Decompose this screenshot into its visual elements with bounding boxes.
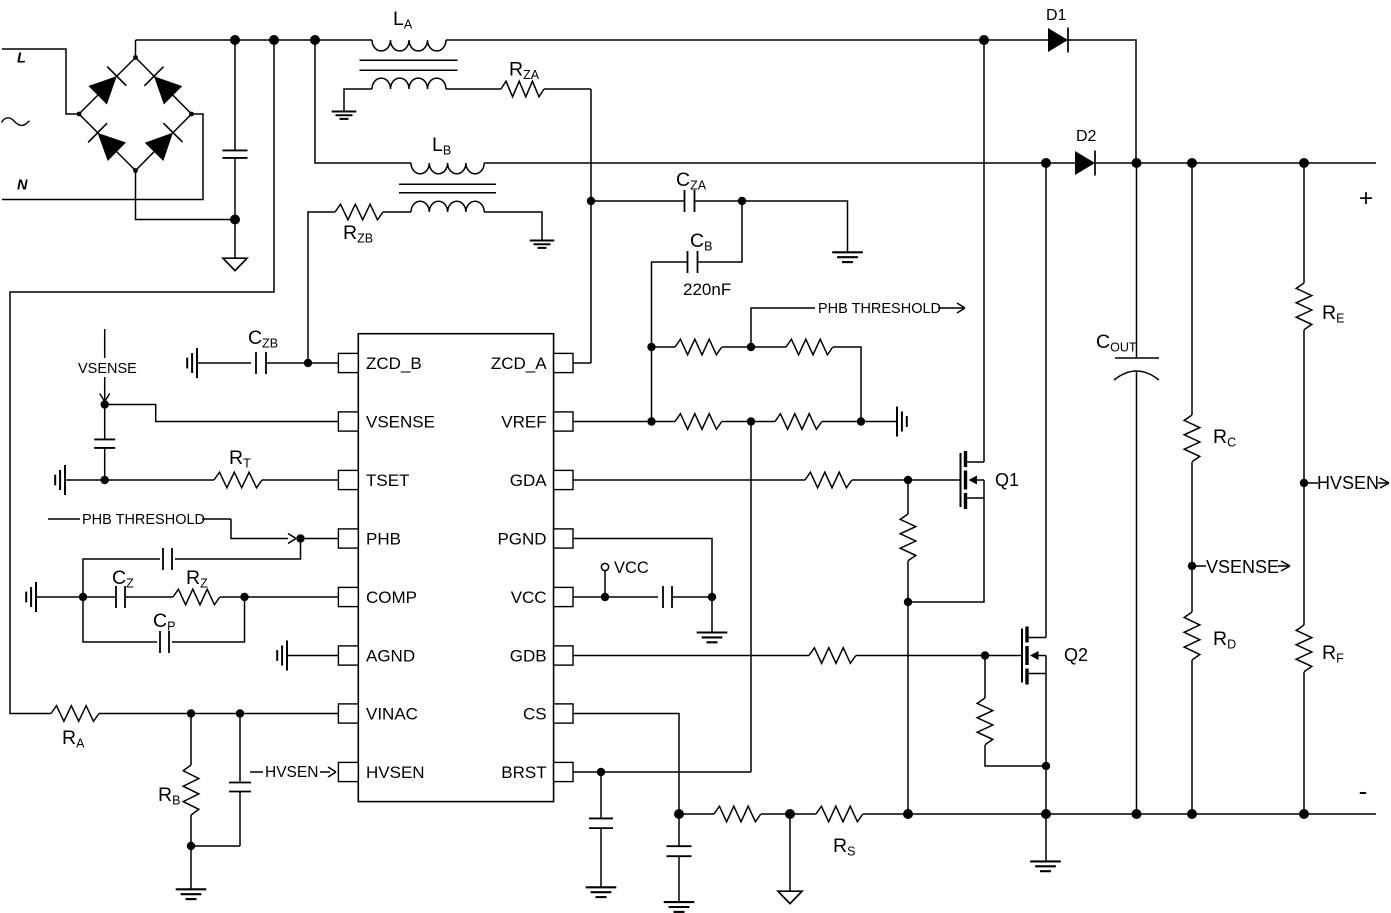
ground AGND — [277, 641, 287, 671]
node rail RD bottom — [1187, 809, 1197, 819]
label RF — [1322, 642, 1344, 666]
svg-text:PHB THRESHOLD: PHB THRESHOLD — [818, 301, 941, 317]
wire TSET left — [65, 479, 214, 481]
wire row2 to ground — [861, 421, 897, 423]
label RD — [1213, 628, 1236, 652]
pin COMP — [338, 587, 417, 607]
resistor RB — [183, 714, 199, 847]
svg-text:COMP: COMP — [366, 588, 417, 607]
capacitor VSENSE filter — [94, 405, 115, 481]
node divider row2 right — [857, 417, 865, 425]
pin HVSEN — [338, 762, 424, 782]
wire BRST out — [573, 771, 751, 773]
node rail Cout bottom — [1132, 809, 1142, 819]
wire AGND to pin — [287, 655, 338, 657]
wire PGND — [573, 539, 712, 598]
label RB — [158, 784, 180, 808]
transistor Q2 — [1022, 627, 1046, 685]
resistor RZA — [501, 81, 544, 97]
capacitor CZ — [116, 586, 125, 608]
wire row2 right — [822, 421, 861, 423]
capacitor BRST filter — [589, 772, 613, 887]
wire VCC cap to PGND — [672, 596, 712, 598]
ground triangle RS — [778, 891, 802, 904]
capacitor PHB-COMP — [83, 539, 301, 598]
wire RT to pin — [262, 479, 338, 481]
resistor Q1 gate pulldown — [900, 480, 916, 602]
pin VSENSE — [338, 412, 435, 432]
resistor divider R1a — [675, 339, 722, 355]
node TSET cap junction — [101, 476, 109, 484]
resistor RS1 — [714, 806, 761, 822]
wire CS out — [573, 714, 679, 815]
label 220nF — [683, 280, 731, 299]
svg-text:+: + — [1359, 185, 1373, 212]
pin PHB — [338, 529, 401, 549]
wire bridge bottom — [136, 171, 236, 220]
capacitor CP — [83, 597, 245, 653]
svg-text:VREF: VREF — [501, 413, 546, 432]
wire CZB left — [197, 362, 251, 364]
wire row1 mid — [722, 346, 786, 348]
node divider row1 mid — [747, 343, 755, 351]
label RT — [229, 447, 251, 471]
node rail Q1 leg — [903, 809, 913, 819]
wire PHB threshold in — [231, 519, 288, 539]
pin VREF — [501, 412, 573, 432]
node CZA-CB junction — [738, 197, 746, 205]
wire PHB threshold arrow — [938, 303, 965, 313]
wire Q2 drain up — [1045, 163, 1047, 638]
capacitor CB — [652, 201, 743, 347]
svg-text:VCC: VCC — [614, 559, 649, 577]
label RA — [62, 727, 85, 751]
wire RZB left — [308, 212, 411, 363]
node PHB junction — [296, 534, 304, 542]
resistor GDA gate — [805, 472, 852, 488]
svg-text:TSET: TSET — [366, 471, 409, 490]
wire Q1 source down — [908, 498, 984, 602]
inductor LB core — [399, 184, 496, 193]
svg-text:VSENSE: VSENSE — [366, 413, 435, 432]
label RZB — [343, 222, 373, 246]
wire RF top — [1303, 483, 1305, 625]
diode bridge D-topright — [144, 67, 182, 105]
svg-text:HVSEN: HVSEN — [1317, 473, 1379, 493]
label RE — [1322, 302, 1344, 326]
capacitor CS filter — [667, 814, 692, 902]
ground output — [1030, 861, 1061, 871]
resistor RZB — [335, 204, 383, 220]
ground LB secondary — [530, 241, 555, 248]
node divider row1 left — [647, 343, 655, 351]
wire Q1 drain up — [983, 40, 985, 462]
wire bridge top to rail — [135, 40, 137, 58]
svg-text:GDA: GDA — [510, 471, 548, 490]
wire rail to D2 — [1046, 162, 1075, 164]
wire ZCDA vertical — [590, 89, 592, 363]
svg-text:L: L — [17, 51, 26, 67]
svg-text:220nF: 220nF — [683, 280, 731, 299]
ground TSET — [55, 465, 65, 495]
wire VSENSE to pin — [105, 405, 339, 422]
node Q1 gate junction — [904, 476, 912, 484]
wire RB to ground — [190, 846, 192, 889]
node CS rail junction — [674, 809, 684, 819]
node Q1 source junction — [904, 598, 912, 606]
bridge frame — [79, 58, 192, 171]
inductor LA primary — [372, 40, 446, 51]
svg-text:Q1: Q1 — [995, 470, 1019, 490]
ground RB — [176, 889, 207, 899]
resistor RT — [214, 472, 262, 488]
wire RD bottom — [1191, 660, 1193, 814]
wire COMP left — [36, 596, 115, 598]
label VSENSE node — [1192, 557, 1290, 577]
svg-text:CS: CS — [523, 705, 547, 724]
ground CS cap — [664, 902, 695, 912]
node Q2 drain tap — [1041, 158, 1051, 168]
resistor GDB gate — [809, 648, 856, 664]
wire CZ to RZ — [126, 596, 173, 598]
resistor RS2 — [816, 806, 863, 822]
svg-text:D1: D1 — [1046, 7, 1067, 24]
pin GDA — [510, 470, 573, 490]
label LB — [432, 134, 451, 158]
svg-text:-: - — [1359, 776, 1368, 806]
diode D1 — [1048, 28, 1068, 53]
svg-text:ZCD_B: ZCD_B — [366, 354, 422, 373]
node VSENSE junction — [101, 400, 109, 408]
svg-text:D2: D2 — [1076, 128, 1097, 145]
label minus terminal — [1359, 776, 1368, 806]
capacitor CZB — [256, 352, 266, 374]
label CZB — [248, 327, 278, 351]
label D2 — [1076, 128, 1097, 145]
svg-text:PHB: PHB — [366, 530, 401, 549]
wire row2 left — [652, 421, 676, 423]
wire RC to VSENSE node — [1191, 462, 1193, 566]
inductor LA secondary — [344, 78, 446, 111]
node Cin bottom — [230, 215, 240, 225]
wire output rail right — [1095, 162, 1376, 164]
node RS mid junction — [785, 809, 795, 819]
inductor LB secondary — [411, 201, 484, 212]
wire top rail left — [136, 39, 373, 41]
wire RZ to pin — [220, 596, 338, 598]
terminal VCC — [601, 563, 608, 597]
wire RS mid — [761, 813, 816, 815]
wire row1 right down — [833, 347, 861, 422]
arrow PHB — [288, 534, 296, 544]
node VINAC cap tap — [236, 709, 244, 717]
wire BRST vertical — [750, 422, 752, 773]
resistor divider R1b — [786, 339, 833, 355]
label CP — [153, 610, 175, 634]
svg-text:VCC: VCC — [511, 588, 547, 607]
node HVSEN output — [1300, 479, 1308, 487]
wire rail to RS1 — [679, 813, 714, 815]
node rail RF bottom — [1299, 809, 1309, 819]
wire bottom rail — [863, 813, 1376, 815]
label plus terminal — [1359, 185, 1373, 212]
transistor Q1 — [961, 451, 985, 509]
capacitor CZA — [591, 190, 742, 212]
node Q2 gate junction — [981, 651, 989, 659]
svg-text:ZCD_A: ZCD_A — [491, 354, 547, 373]
node PGND junction — [708, 593, 716, 601]
wire LB sec right to ground — [484, 212, 542, 241]
resistor RZ — [173, 589, 220, 605]
label LA — [393, 8, 413, 32]
wire Q2 source down — [1045, 674, 1047, 767]
wire GDB out — [573, 655, 809, 657]
node bridge bottom — [133, 168, 138, 173]
label D1 — [1046, 7, 1067, 24]
wire RC top — [1191, 163, 1193, 415]
resistor RD — [1184, 612, 1200, 660]
label RS — [833, 835, 855, 859]
svg-text:VINAC: VINAC — [366, 705, 418, 724]
node divider row2 left — [647, 417, 655, 425]
resistor Q2 gate pulldown — [977, 656, 1046, 767]
label VSENSE signal — [78, 361, 137, 377]
ground BRST cap — [586, 887, 617, 897]
wire line L input — [2, 49, 79, 114]
label HVSEN node — [1304, 473, 1389, 493]
wire LA sec to RZA — [446, 88, 501, 90]
wire RE to HVSEN node — [1303, 330, 1305, 483]
label VCC — [614, 559, 649, 577]
ground LA secondary — [332, 112, 357, 119]
wire VSENSE stub bottom — [104, 377, 106, 400]
wire RZA to ZCDA vert — [544, 88, 591, 90]
diode bridge D-topleft — [88, 67, 126, 105]
node BRST junction — [597, 768, 605, 776]
diode D2 — [1075, 151, 1095, 176]
resistor divider R2a — [675, 414, 722, 430]
ground VREF divider — [897, 407, 907, 437]
wire GDA to gate — [852, 479, 961, 481]
node rail RE tap — [1299, 158, 1309, 168]
svg-text:AGND: AGND — [366, 647, 415, 666]
svg-text:PGND: PGND — [497, 530, 546, 549]
wire row2 mid — [722, 421, 775, 423]
wire GDB to gate — [856, 655, 1022, 657]
label Q2 — [1064, 645, 1088, 665]
pin ZCD_A — [491, 353, 573, 373]
inductor LB primary — [411, 163, 484, 174]
wire RS mid to ground — [789, 814, 791, 891]
node divider row2 mid — [747, 417, 755, 425]
wire PHB to pin — [301, 538, 339, 540]
wire VREF to row2 — [573, 421, 652, 423]
wire line N input — [2, 114, 203, 200]
label COUT — [1096, 331, 1137, 355]
capacitor VCC bypass — [663, 586, 672, 608]
wire RF bottom — [1303, 672, 1305, 814]
arrow VSENSE — [100, 394, 110, 402]
wire PGND to ground — [711, 597, 713, 633]
node RB bottom — [187, 842, 195, 850]
svg-text:VSENSE: VSENSE — [78, 361, 137, 377]
ground triangle input — [223, 258, 247, 271]
ground PGND — [697, 633, 728, 643]
capacitor Cout — [1114, 358, 1159, 814]
node rail RC tap — [1187, 158, 1197, 168]
node rail Q2 leg — [1041, 809, 1051, 819]
ground COMP — [26, 582, 36, 612]
wire VSENSE stub top — [104, 329, 106, 358]
svg-text:BRST: BRST — [501, 763, 546, 782]
pin BRST — [501, 762, 573, 782]
label CZA — [676, 169, 707, 193]
node bridge top — [133, 55, 138, 60]
wire top rail mid — [446, 39, 984, 41]
label RZA — [509, 59, 540, 83]
svg-text:Q2: Q2 — [1064, 645, 1088, 665]
inductor LA core — [360, 60, 458, 70]
op-amp U1 controller body — [358, 334, 553, 802]
node CZA tap — [587, 197, 595, 205]
label N — [17, 178, 28, 194]
diode bridge D-bottomright — [144, 123, 182, 161]
label PHB THRESHOLD left — [48, 512, 231, 528]
wire Cin to ground — [234, 220, 236, 259]
label RZ — [186, 567, 208, 591]
ground CZA — [832, 252, 863, 262]
svg-text:HVSEN: HVSEN — [366, 763, 425, 782]
wire CZA to ground — [742, 201, 848, 252]
wire PHB threshold tap — [751, 308, 815, 347]
wire VCC out — [573, 596, 658, 598]
label CZ — [112, 567, 134, 591]
svg-text:PHB THRESHOLD: PHB THRESHOLD — [82, 512, 205, 528]
svg-text:VSENSE: VSENSE — [1206, 557, 1279, 577]
capacitor Cin — [223, 40, 248, 220]
wire VINAC sense path — [10, 40, 274, 714]
label CB — [690, 230, 712, 254]
wire RA to pin — [99, 713, 338, 715]
node bridge right — [189, 112, 194, 117]
wire output rail — [484, 162, 1046, 164]
wire row1-row2 left link — [651, 347, 653, 422]
pin PGND — [497, 529, 573, 549]
resistor RF — [1296, 625, 1312, 672]
capacitor VINAC filter — [191, 714, 251, 847]
svg-text:HVSEN: HVSEN — [265, 764, 318, 781]
node VCC junction — [601, 593, 609, 601]
label Q1 — [995, 470, 1019, 490]
wire rail to D1 — [984, 39, 1048, 41]
pin AGND — [338, 646, 415, 666]
pin ZCD_B — [338, 353, 421, 373]
wire ZCDA to pin — [573, 362, 591, 364]
resistor RE — [1296, 283, 1312, 330]
label RC — [1213, 426, 1236, 450]
label HVSEN left — [250, 764, 330, 781]
pin GDB — [510, 646, 573, 666]
wire Q1 source to rail — [907, 602, 909, 814]
wire Q2 leg ground stub — [1045, 814, 1047, 861]
arrow HVSEN into pin — [328, 767, 336, 777]
node ZCDB junction — [304, 359, 312, 367]
wire D1 to output rail — [1068, 40, 1136, 163]
node rail Q1 drain tap — [979, 35, 989, 45]
wire Cout top — [1136, 163, 1138, 358]
wire RD top — [1191, 566, 1193, 612]
wire CZB to pin — [266, 362, 338, 364]
ground CZB — [187, 348, 197, 378]
node rail LB tap — [310, 35, 320, 45]
svg-text:N: N — [17, 178, 28, 194]
wire Q2 source to rail — [1045, 766, 1047, 814]
node rail VINAC tap — [269, 35, 279, 45]
node rail Cin tap — [230, 35, 240, 45]
pin VINAC — [338, 704, 418, 724]
node rail Cout tap — [1132, 158, 1142, 168]
label L — [17, 51, 26, 67]
pin TSET — [338, 470, 409, 490]
node RB tap — [187, 709, 195, 717]
node COMP right junction — [240, 593, 248, 601]
pin CS — [523, 704, 573, 724]
resistor RA — [51, 706, 99, 722]
diode bridge D-bottomleft — [88, 123, 126, 161]
ac source sine symbol — [2, 118, 30, 126]
label PHB THRESHOLD right — [818, 301, 941, 317]
resistor RC — [1184, 415, 1200, 462]
wire row1 left — [652, 346, 676, 348]
pin VCC — [511, 587, 573, 607]
node bridge left — [77, 112, 82, 117]
wire GDA out — [573, 479, 805, 481]
wire rail to LB — [315, 40, 411, 163]
svg-text:GDB: GDB — [510, 647, 547, 666]
resistor divider R2b — [775, 414, 822, 430]
node Q2 source junction — [1042, 762, 1050, 770]
node COMP left junction — [79, 593, 87, 601]
wire RE top — [1303, 163, 1305, 283]
node VSENSE output — [1188, 562, 1196, 570]
